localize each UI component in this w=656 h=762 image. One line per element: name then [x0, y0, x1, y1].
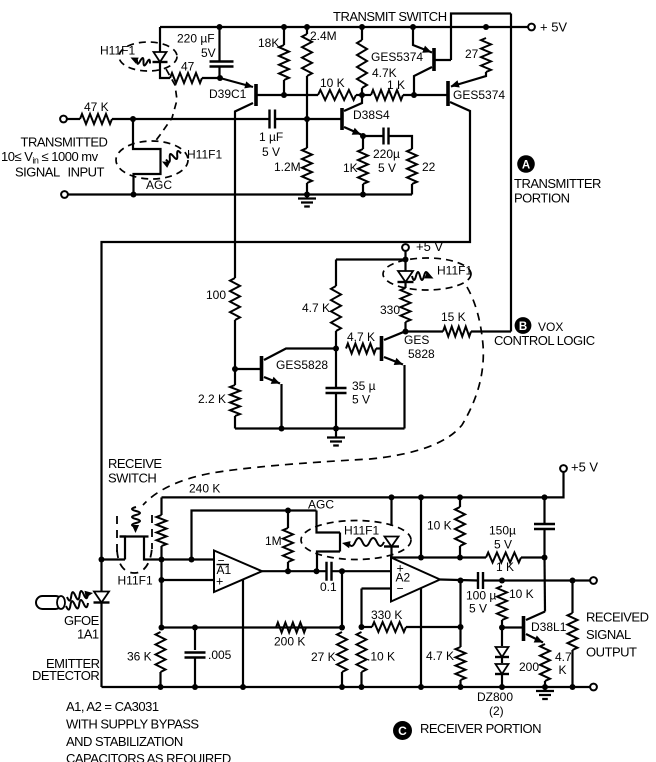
- resistor 15K: [443, 327, 471, 337]
- junction A2 power bottom: [418, 684, 424, 690]
- svg-text:1M: 1M: [265, 534, 282, 548]
- marker C circle: [393, 721, 412, 740]
- fiber cable: [36, 596, 62, 609]
- wire 2.2K leads: [234, 369, 236, 385]
- junction 2.4M top: [304, 24, 310, 30]
- terminal output top: [590, 577, 597, 584]
- resistor 1K vert: [358, 149, 368, 184]
- svg-text:A: A: [522, 159, 530, 171]
- svg-text:GES: GES: [404, 333, 429, 347]
- svg-text:10 K: 10 K: [427, 519, 452, 533]
- wire A2 minus down: [360, 589, 362, 628]
- diode H11F1 LED: [154, 52, 167, 62]
- svg-text:SWITCH: SWITCH: [108, 470, 156, 485]
- resistor 1.2M: [302, 148, 312, 183]
- svg-text:SIGNAL: SIGNAL: [586, 627, 631, 642]
- wire H11F1 LED cathode: [160, 62, 170, 78]
- wire LED to 330: [404, 282, 406, 288]
- wire .005 top lead: [194, 628, 196, 651]
- svg-text:5 V: 5 V: [378, 161, 396, 175]
- junction 240K node: [159, 557, 165, 563]
- wire 47 to D39C1 emitter: [202, 77, 220, 79]
- svg-text:DETECTOR: DETECTOR: [32, 668, 99, 683]
- junction 10K3 top: [499, 578, 505, 584]
- svg-text:WITH SUPPLY BYPASS: WITH SUPPLY BYPASS: [66, 716, 199, 731]
- svg-text:D38L1: D38L1: [531, 620, 567, 634]
- junction 200 bottom: [542, 684, 548, 690]
- wire 10K recv leads: [459, 497, 461, 507]
- capacitor .005: [185, 653, 206, 658]
- svg-text:TRANSMITTER: TRANSMITTER: [514, 176, 601, 191]
- terminal +5V top: [528, 24, 535, 31]
- wire 150u bottom lead: [543, 529, 545, 558]
- package ellipse H11F1 #1: [119, 42, 177, 71]
- transistor GES5374#1 bar: [432, 48, 436, 71]
- junction ground top rail: [304, 192, 310, 198]
- svg-text:RECEIVED: RECEIVED: [586, 609, 649, 624]
- svg-text:1 K: 1 K: [496, 560, 514, 574]
- svg-text:C: C: [398, 724, 407, 738]
- wire VOX control vertical: [510, 14, 512, 332]
- wire 27K node vert: [341, 571, 343, 627]
- svg-text:5 V: 5 V: [494, 538, 512, 552]
- junction A2 out 460: [458, 578, 464, 584]
- wire H11F1#2 in: [133, 119, 161, 195]
- package ellipse H11F1 #4: [301, 521, 411, 560]
- junction rail 150u: [542, 494, 548, 500]
- arrowhead D39C1 emitter: [244, 81, 253, 88]
- transistor GES5828#2 bar: [380, 336, 384, 361]
- resistor 4.7K vox vert: [331, 286, 341, 331]
- junction bias node: [304, 116, 310, 122]
- wire 27 to GES5374#2 emitter: [451, 72, 486, 87]
- optical arrow H11F1 #5: [132, 507, 140, 527]
- junction +5V vox node: [403, 257, 409, 263]
- arrowhead D38L1 emitter: [534, 636, 543, 643]
- svg-text:H11F1: H11F1: [437, 264, 472, 278]
- svg-text:1.2M: 1.2M: [274, 160, 301, 174]
- resistor 22: [407, 149, 417, 184]
- junction A1 fb node: [189, 557, 195, 563]
- svg-text:+: +: [216, 575, 223, 589]
- svg-text:100 µ: 100 µ: [466, 589, 496, 603]
- junction 10K- top: [359, 624, 365, 630]
- wire 240K bottom: [160, 546, 162, 560]
- junction 220uF top: [217, 24, 223, 30]
- wire 220uF bottom lead: [218, 67, 220, 79]
- svg-text:27 K: 27 K: [311, 650, 336, 664]
- wire 15K left: [406, 330, 444, 332]
- svg-text:4.7 K: 4.7 K: [347, 330, 375, 344]
- resistor 330: [401, 288, 411, 322]
- resistor 1K horiz: [371, 90, 403, 100]
- optical arrow H11F1 #2: [166, 151, 181, 162]
- wire D38L1 base: [502, 626, 524, 628]
- svg-text:5 V: 5 V: [469, 602, 487, 616]
- capacitor 1uF: [270, 110, 276, 129]
- diode H11F1#4 LED: [385, 537, 399, 547]
- resistor 10K recv: [455, 507, 465, 546]
- wire input to junction: [67, 118, 80, 120]
- wire 36K bottom: [159, 672, 161, 687]
- svg-text:GES5374: GES5374: [371, 50, 423, 64]
- capacitor 220u: [384, 128, 389, 145]
- capacitor 150u: [534, 524, 555, 529]
- junction 36K bottom: [158, 684, 164, 690]
- junction 4.7K out bottom: [570, 684, 576, 690]
- svg-text:AND STABILIZATION: AND STABILIZATION: [66, 734, 183, 749]
- ground output: [544, 687, 546, 691]
- junction 4.7K mid bottom: [458, 684, 464, 690]
- wire 0.1 to A2: [332, 570, 392, 572]
- svg-text:RECEIVE: RECEIVE: [108, 456, 162, 471]
- wire GES5828#1 base: [235, 368, 262, 370]
- svg-text:GES5828: GES5828: [276, 358, 328, 372]
- wire 4.7K vox vert leads: [335, 260, 337, 287]
- wire VOX rail: [235, 427, 405, 429]
- capacitor 0.1: [327, 562, 332, 581]
- wire 1K recv right: [521, 556, 545, 558]
- wire 1M bottom lead: [287, 562, 289, 571]
- wire 22 bottom: [411, 184, 413, 195]
- junction VOX out node: [403, 329, 409, 335]
- wire 4.7K leads: [361, 27, 363, 40]
- wire GES5828#2 emitter down: [403, 365, 405, 429]
- wire +5V top rail: [160, 26, 529, 28]
- ground VOX: [335, 429, 337, 438]
- wire D38S4 emitter: [344, 127, 361, 135]
- junction H11F1#2 bottom: [131, 192, 137, 198]
- junction A1 plus node: [159, 577, 165, 583]
- wire 1M top lead: [287, 511, 289, 529]
- wire 1K vert leads: [362, 136, 364, 149]
- resistor 4.7K out: [568, 613, 578, 650]
- wire GES5828#1 emitter down: [280, 384, 282, 429]
- wire A2 power pin: [420, 588, 422, 687]
- marker B circle: [515, 317, 532, 334]
- wire +5V vox to 4.7K: [336, 258, 406, 260]
- junction D38S4 emitter node: [360, 133, 366, 139]
- terminal +5V recv: [560, 465, 567, 472]
- svg-text:RECEIVER PORTION: RECEIVER PORTION: [420, 721, 541, 736]
- junction 18K base: [281, 92, 287, 98]
- resistor 100: [230, 278, 240, 320]
- optocoupler H11F1 receive switch: [120, 537, 126, 560]
- resistor 4.7K vert: [357, 40, 367, 88]
- svg-text:22: 22: [422, 160, 436, 174]
- fiber light arrow 1: [67, 591, 88, 601]
- wire +5V vox lead: [404, 251, 406, 272]
- svg-text:D38S4: D38S4: [353, 108, 390, 122]
- optical arrow H11F1 #4: [348, 538, 384, 546]
- svg-text:−: −: [397, 582, 404, 596]
- transistor GES5828#1 bar: [260, 356, 264, 381]
- svg-text:10 K: 10 K: [509, 587, 534, 601]
- svg-text:18K: 18K: [258, 36, 279, 50]
- junction 330K right: [458, 624, 464, 630]
- wire D39C1 collector: [235, 103, 253, 278]
- svg-text:2.2 K: 2.2 K: [198, 392, 226, 406]
- junction 0.1 right: [339, 568, 345, 574]
- svg-text:TRANSMITTED: TRANSMITTED: [21, 134, 108, 149]
- wire left mid wire: [162, 626, 343, 628]
- junction emitter rail: [279, 426, 285, 432]
- arrowhead D38S4 emitter: [352, 128, 361, 135]
- junction GES5374#1 emitter rail: [410, 24, 416, 30]
- resistor 47: [170, 73, 202, 83]
- junction 0.1 left: [314, 568, 320, 574]
- svg-text:27: 27: [465, 47, 479, 61]
- wire D38L1 emitter: [526, 634, 543, 643]
- svg-text:100: 100: [206, 288, 226, 302]
- wire 240K node down: [160, 560, 162, 628]
- wire A1 power pin: [242, 579, 244, 687]
- dashed VOX-to-receive curve: [143, 287, 483, 505]
- arrowhead GES5374#2 emitter: [451, 80, 460, 87]
- svg-text:150µ: 150µ: [489, 524, 516, 538]
- svg-text:AGC: AGC: [146, 178, 172, 192]
- capacitor 35u: [326, 388, 347, 393]
- resistor 36K: [156, 632, 166, 672]
- junction 27K top: [339, 625, 345, 631]
- ground input section: [306, 195, 308, 199]
- svg-text:5V: 5V: [201, 46, 216, 60]
- wire 200 bottom: [544, 681, 546, 687]
- resistor 2.2K: [230, 385, 240, 416]
- wire 100 bottom: [234, 320, 236, 369]
- svg-text:OUTPUT: OUTPUT: [586, 644, 637, 659]
- wire 330K wire: [362, 626, 373, 628]
- junction .005 top: [192, 625, 198, 631]
- svg-text:B: B: [519, 321, 527, 333]
- junction 36K node: [159, 625, 165, 631]
- resistor 1K recv: [486, 553, 521, 563]
- marker A circle: [517, 155, 535, 173]
- junction 1M bottom: [285, 568, 291, 574]
- capacitor 220uF: [210, 62, 234, 67]
- wire 220uF top lead: [218, 27, 220, 61]
- transistor D38S4 bar: [340, 108, 344, 130]
- wire signal line: [133, 118, 269, 120]
- wire D38S4 collector: [344, 95, 362, 111]
- svg-text:AGC: AGC: [308, 498, 334, 512]
- junction 4.7K top: [359, 24, 365, 30]
- wire GES5374#1 base: [434, 59, 451, 61]
- junction mid 150u: [542, 555, 548, 561]
- transistor D38L1 bar: [522, 616, 526, 641]
- svg-text:K: K: [559, 663, 567, 677]
- wire 18K leads: [283, 27, 285, 45]
- svg-text:0.1: 0.1: [320, 580, 337, 594]
- wire GES5828#2 collector: [384, 332, 404, 340]
- diode DZ800 pair: [501, 628, 503, 647]
- resistor 240K: [157, 515, 167, 546]
- junction 47/220uF/emitter: [217, 75, 223, 81]
- wire 150u top lead: [543, 497, 545, 524]
- wire bottom rail: [102, 686, 591, 688]
- svg-text:240 K: 240 K: [189, 482, 220, 496]
- wire GES5828#1 emitter: [264, 377, 280, 384]
- junction rail 421: [418, 494, 424, 500]
- svg-text:A1, A2 = CA3031: A1, A2 = CA3031: [66, 699, 159, 714]
- svg-text:CAPACITORS AS REQUIRED: CAPACITORS AS REQUIRED: [66, 751, 231, 762]
- wire emitter node right: [363, 135, 383, 137]
- wire 330K right lead: [406, 626, 461, 628]
- resistor .10K: [357, 632, 367, 672]
- wire D39C1 emitter: [220, 78, 253, 87]
- junction 18K top: [281, 24, 287, 30]
- wire 10K-1K: [356, 94, 371, 96]
- resistor 4.7K vox horiz: [346, 344, 376, 354]
- wire diode4 bottom lead: [390, 547, 392, 558]
- junction .10K bottom: [359, 684, 365, 690]
- junction GES5828#1 base node: [232, 366, 238, 372]
- junction rail 10K2: [457, 494, 463, 500]
- wire 10K out bottom: [501, 620, 503, 628]
- junction 35u bottom: [333, 426, 339, 432]
- wire +5V recv lead: [162, 472, 564, 497]
- wire 35u leads: [335, 349, 337, 389]
- svg-text:4.7K: 4.7K: [372, 66, 397, 80]
- package ellipse H11F1 #3: [383, 258, 471, 290]
- wire recv switch wire: [102, 558, 126, 560]
- svg-text:200 K: 200 K: [274, 635, 305, 649]
- wire GES5374#2 collector: [102, 102, 471, 687]
- svg-text:GES5374: GES5374: [453, 88, 505, 102]
- svg-text:2.4M: 2.4M: [310, 29, 337, 43]
- svg-text:220µ: 220µ: [373, 147, 400, 161]
- svg-text:1 K: 1 K: [387, 78, 405, 92]
- junction 1K/collector node: [411, 92, 417, 98]
- wire .10K bottom: [360, 672, 362, 687]
- resistor 4.7K recv mid: [456, 647, 466, 680]
- svg-text:5 V: 5 V: [262, 145, 280, 159]
- junction 27 top: [483, 24, 489, 30]
- wire H11F1 LED anode: [159, 27, 161, 52]
- wire mid rail 557: [392, 556, 487, 558]
- wire D39C1 base: [256, 94, 318, 96]
- svg-text:15 K: 15 K: [441, 310, 466, 324]
- svg-text:220 µF: 220 µF: [177, 32, 215, 46]
- svg-text:+ 5V: + 5V: [540, 19, 567, 34]
- junction 1K bottom: [360, 192, 366, 198]
- package outline H11F1 #5: [116, 516, 118, 554]
- junction recv switch left: [99, 557, 105, 563]
- svg-text:DZ800: DZ800: [477, 690, 513, 704]
- junction input node: [130, 116, 136, 122]
- svg-text:INPUT: INPUT: [68, 164, 105, 179]
- svg-text:47 K: 47 K: [84, 100, 109, 114]
- diode H11F1 VOX LED: [398, 271, 413, 282]
- resistor 1M: [283, 528, 293, 562]
- transistor GES5374#2 bar: [446, 81, 450, 106]
- svg-text:47: 47: [181, 60, 195, 74]
- svg-text:10 K: 10 K: [320, 76, 345, 90]
- resistor 10K out: [497, 586, 507, 620]
- svg-text:CONTROL LOGIC: CONTROL LOGIC: [494, 333, 595, 348]
- svg-text:1K: 1K: [343, 161, 358, 175]
- wire collector vert D38L1: [543, 558, 546, 612]
- junction DZ800 bottom: [499, 684, 505, 690]
- svg-text:4.7 K: 4.7 K: [426, 649, 454, 663]
- wire 240K top corner: [160, 497, 162, 515]
- resistor 2.4M: [302, 34, 312, 76]
- junction 4.7K out top: [570, 578, 576, 584]
- junction mid 421: [418, 555, 424, 561]
- junction mid 460: [457, 555, 463, 561]
- wire 4.7K out leads: [571, 581, 573, 614]
- svg-text:+5 V: +5 V: [416, 239, 443, 254]
- wire A2 minus input: [362, 587, 392, 589]
- capacitor 100u: [478, 572, 483, 589]
- wire 1K to GES5374 node: [403, 94, 448, 96]
- optocoupler H11F1 AGC switch: [317, 511, 341, 533]
- junction diode4 rail: [389, 494, 395, 500]
- svg-text:10≤ Vin ≤ 1000 mv: 10≤ Vin ≤ 1000 mv: [1, 149, 99, 166]
- arrowhead GES5828#2 emitter: [394, 358, 403, 365]
- junction 1M top: [285, 508, 291, 514]
- svg-text:(2): (2): [489, 704, 504, 718]
- op-amp A1: [214, 551, 262, 593]
- resistor 27: [481, 38, 491, 72]
- svg-text:200: 200: [519, 660, 539, 674]
- fiber light arrow 2: [66, 600, 88, 610]
- svg-text:.005: .005: [208, 648, 232, 662]
- svg-text:330 K: 330 K: [371, 608, 402, 622]
- terminal input bottom: [61, 191, 68, 198]
- svg-text:1 µF: 1 µF: [259, 130, 283, 144]
- wire 4.7K mid leads: [459, 627, 461, 647]
- svg-text:.10 K: .10 K: [367, 650, 395, 664]
- svg-text:H11F1: H11F1: [187, 148, 222, 162]
- wire A1 output: [262, 570, 327, 572]
- wire D38L1 collector: [526, 612, 545, 621]
- svg-text:H11F1: H11F1: [344, 524, 379, 538]
- svg-text:5 V: 5 V: [352, 393, 370, 407]
- svg-text:1A1: 1A1: [77, 626, 99, 641]
- wire 460 vert down: [459, 581, 461, 628]
- wire 2.4M lead: [306, 27, 308, 34]
- svg-text:5828: 5828: [408, 347, 435, 361]
- diode GFOE: [94, 592, 109, 603]
- wire 220u to 22: [389, 136, 413, 149]
- optical arrow H11F1 #3: [412, 272, 428, 280]
- terminal input top: [60, 116, 67, 123]
- wire signal line 2: [275, 118, 342, 120]
- svg-text:35 µ: 35 µ: [352, 379, 376, 393]
- wire A1 feedback up: [192, 511, 317, 560]
- svg-text:TRANSMIT SWITCH: TRANSMIT SWITCH: [333, 9, 447, 24]
- svg-text:36 K: 36 K: [127, 650, 152, 664]
- svg-text:4.7 K: 4.7 K: [302, 301, 330, 315]
- svg-text:+5 V: +5 V: [571, 459, 598, 474]
- wire A2 output: [440, 580, 478, 581]
- resistor 18K: [279, 45, 289, 80]
- resistor 27K: [337, 632, 347, 672]
- junction .005 bottom: [192, 684, 198, 690]
- wire A1 plus input: [162, 579, 215, 581]
- svg-text:H11F1: H11F1: [118, 574, 153, 588]
- package ellipse H11F1 #2: [116, 141, 188, 179]
- resistor 47K: [80, 114, 112, 124]
- wire GES5828#2 emitter: [384, 357, 403, 365]
- optical arrow H11F1 #1: [137, 58, 150, 66]
- wire GES5828#1 collector: [264, 349, 336, 361]
- arrowhead GES5374#1 emitter: [422, 46, 431, 53]
- wire recv to A1 minus: [162, 558, 215, 560]
- wire .005 bottom lead: [194, 658, 196, 688]
- junction A1 power bottom: [240, 684, 246, 690]
